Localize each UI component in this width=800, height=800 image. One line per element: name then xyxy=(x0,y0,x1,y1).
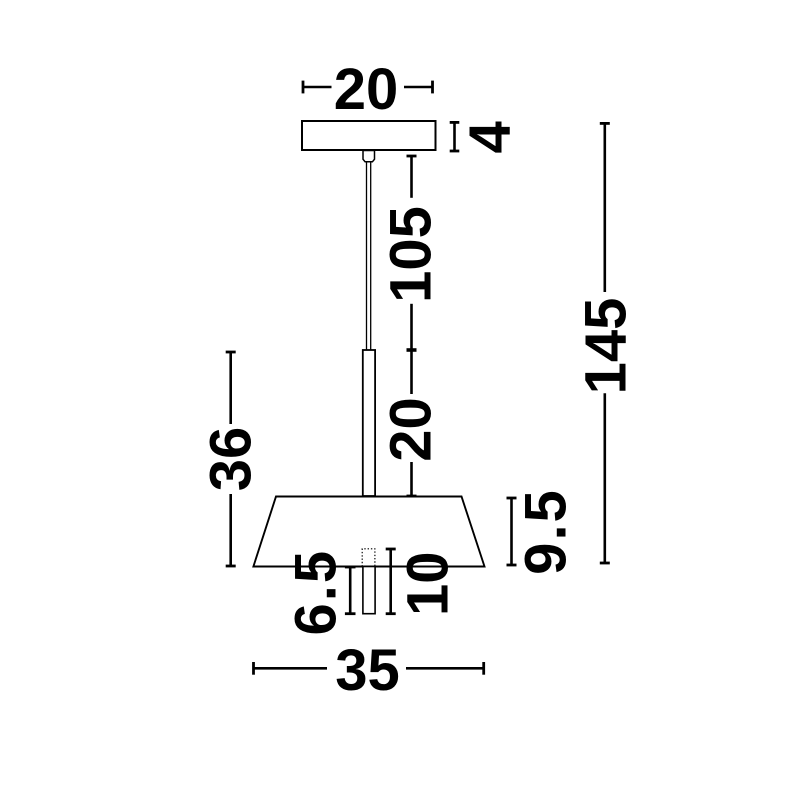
dimension 9.5 (shade height, right) xyxy=(507,488,579,575)
svg-text:6.5: 6.5 xyxy=(283,549,348,636)
svg-text:20: 20 xyxy=(378,397,443,462)
svg-text:4: 4 xyxy=(458,121,523,153)
dimension 10 (tube total length) xyxy=(386,549,461,616)
hidden tube inside shade (dotted) xyxy=(362,549,375,567)
svg-text:20: 20 xyxy=(334,57,399,122)
svg-text:36: 36 xyxy=(198,427,263,492)
cable connector below canopy xyxy=(363,151,375,162)
stem rod above shade xyxy=(363,350,375,496)
tube below shade xyxy=(363,567,375,614)
dimension 6.5 (visible tube below shade) xyxy=(283,549,355,636)
dimension 20 (canopy width, top) xyxy=(303,57,433,122)
dimension 4 (canopy height, right) xyxy=(450,121,523,153)
dimension 105 (cable length) xyxy=(378,156,443,350)
dimension 36 (left) xyxy=(198,352,263,566)
canopy (ceiling plate) xyxy=(302,121,436,150)
dimension 35 (shade width, bottom) xyxy=(254,638,484,703)
svg-text:105: 105 xyxy=(378,206,443,303)
dimension 20 (rod length) xyxy=(378,350,443,496)
lamp shade (trapezoid) xyxy=(253,497,484,567)
svg-text:35: 35 xyxy=(335,638,400,703)
dimension 145 (overall height, far right) xyxy=(574,123,639,563)
svg-text:9.5: 9.5 xyxy=(514,488,579,575)
suspension cable xyxy=(367,162,371,351)
svg-text:10: 10 xyxy=(395,551,460,616)
svg-text:145: 145 xyxy=(574,298,639,395)
